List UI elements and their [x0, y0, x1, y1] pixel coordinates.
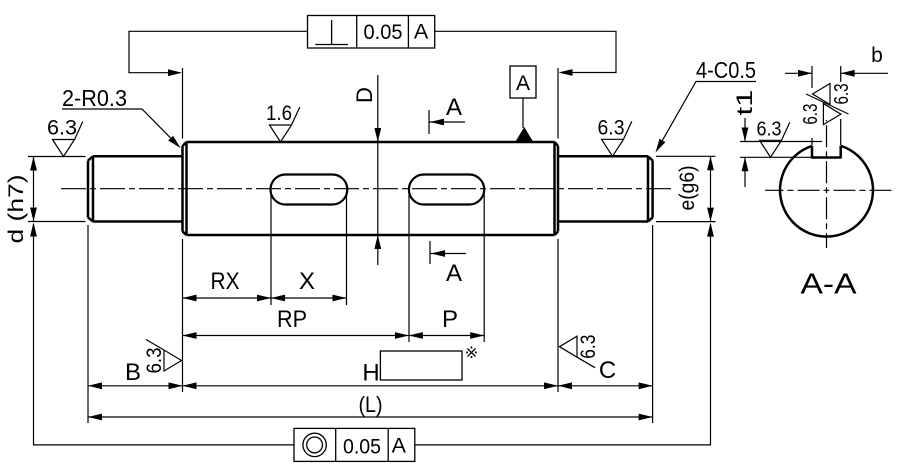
extension line right end (bottom) [652, 225, 654, 423]
dimension X [271, 297, 347, 299]
datum A box [510, 66, 536, 98]
svg-text:6.3: 6.3 [142, 347, 166, 373]
surface finish 6.3 rotated at C [560, 336, 596, 368]
dimension e (g6) right [656, 156, 716, 221]
dimension (L) [88, 416, 653, 418]
surface finish 6.3 rotated lower at section keyway [823, 104, 841, 125]
extension line left shoulder (bottom) [182, 239, 184, 392]
section view centerline vertical [826, 120, 828, 248]
shaft left journal (diameter d h7) [88, 156, 183, 221]
svg-text:※: ※ [465, 345, 478, 362]
svg-text:A: A [414, 20, 429, 44]
svg-text:6.3: 6.3 [576, 335, 600, 359]
leader right of perpendicularity frame [435, 31, 616, 72]
svg-text:2-R0.3: 2-R0.3 [62, 85, 127, 111]
dimension t1 keyway depth [740, 142, 822, 158]
svg-text:6.3: 6.3 [757, 117, 782, 140]
keyway slot left [271, 175, 348, 205]
svg-text:D: D [352, 87, 377, 103]
leader right of concentricity frame to e dimension [415, 224, 711, 445]
keyway slot right [409, 175, 484, 205]
svg-text:e(g6): e(g6) [676, 166, 699, 211]
extension line left shoulder face (top) [182, 68, 184, 139]
svg-text:A: A [446, 94, 462, 121]
dimension D center section [377, 75, 379, 265]
svg-text:6.3: 6.3 [830, 84, 853, 105]
svg-text:(L): (L) [359, 392, 383, 417]
datum A leader [522, 98, 524, 128]
shaft right journal (diameter e g6) [558, 156, 653, 221]
section view A-A circle [780, 146, 873, 237]
section view centerline horizontal [765, 189, 895, 191]
svg-text:d (h7): d (h7) [4, 175, 28, 244]
dimension B [88, 385, 183, 387]
svg-text:C: C [599, 357, 616, 384]
surface finish 1.6 on center section [270, 107, 300, 142]
svg-text:A: A [446, 260, 462, 287]
feature control frame concentricity 0.05 A [294, 428, 415, 461]
section cut mark A top [428, 110, 430, 134]
section cut mark A bottom [429, 241, 431, 264]
dimension d (h7) left [28, 157, 86, 222]
surface finish 6.3 rotated at B [146, 340, 182, 372]
dimension P [409, 335, 484, 337]
svg-text:0.05: 0.05 [364, 20, 403, 44]
extension lines right keyway [409, 192, 484, 342]
H value box [380, 351, 462, 380]
svg-text:0.05: 0.05 [343, 434, 381, 458]
svg-text:X: X [299, 268, 315, 295]
svg-text:B: B [125, 359, 141, 386]
feature control frame perpendicularity 0.05 A [308, 16, 435, 49]
dimension b keyway width [812, 66, 841, 145]
extension line left end (bottom) [87, 225, 89, 423]
dimension C [558, 385, 653, 387]
svg-text:6.3: 6.3 [799, 104, 822, 125]
extension lines left keyway [271, 192, 347, 305]
extension line right shoulder (bottom) [557, 239, 559, 392]
svg-text:RX: RX [211, 268, 240, 295]
surface finish 6.3 rotated upper at section keyway [813, 84, 831, 105]
svg-text:1.6: 1.6 [266, 101, 292, 125]
dimension RX [183, 297, 272, 299]
svg-text:b: b [871, 44, 883, 67]
shaft center section (diameter D) [183, 142, 559, 235]
datum A filled triangle [516, 127, 534, 142]
centerline main shaft axis [61, 188, 672, 190]
surface finish 6.3 on right journal [602, 121, 632, 156]
svg-text:6.3: 6.3 [598, 115, 625, 139]
svg-text:4-C0.5: 4-C0.5 [696, 57, 756, 83]
shared slash of section finish symbols [806, 94, 849, 114]
dimension RP [183, 335, 409, 337]
surface finish 6.3 at t1 [760, 122, 790, 157]
leader left of perpendicularity frame [129, 31, 308, 72]
svg-text:6.3: 6.3 [47, 116, 77, 140]
section view keyway notch [812, 146, 841, 158]
svg-text:RP: RP [277, 306, 307, 333]
svg-text:P: P [442, 306, 458, 333]
surface finish 6.3 on left journal [53, 122, 83, 157]
leader left of concentricity frame to d dimension [34, 224, 295, 445]
svg-text:A-A: A-A [801, 269, 858, 301]
svg-text:H: H [362, 360, 379, 387]
extension line right shoulder face (top) [557, 68, 559, 139]
dimension H [183, 385, 559, 387]
svg-text:t1: t1 [732, 90, 757, 116]
svg-text:A: A [392, 434, 407, 458]
svg-text:A: A [516, 72, 530, 95]
